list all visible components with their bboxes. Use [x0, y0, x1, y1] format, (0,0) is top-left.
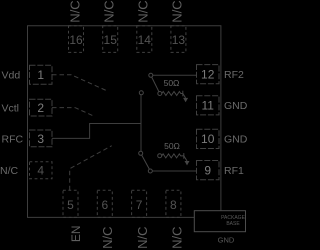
svg-text:GND: GND	[224, 134, 248, 146]
svg-text:N/C: N/C	[136, 0, 151, 22]
svg-text:N/C: N/C	[170, 0, 185, 22]
svg-text:RF2: RF2	[224, 69, 244, 81]
svg-text:11: 11	[201, 99, 214, 113]
svg-text:GND: GND	[218, 236, 235, 245]
svg-text:15: 15	[104, 33, 118, 47]
svg-text:RFC: RFC	[2, 133, 24, 145]
svg-text:7: 7	[136, 198, 143, 212]
svg-text:N/C: N/C	[102, 0, 117, 22]
svg-text:9: 9	[204, 164, 211, 178]
svg-text:4: 4	[37, 164, 44, 178]
svg-text:2: 2	[37, 101, 44, 115]
svg-text:BASE: BASE	[226, 221, 240, 227]
svg-text:Vctl: Vctl	[2, 102, 20, 114]
svg-text:GND: GND	[224, 100, 248, 112]
svg-text:RF1: RF1	[224, 165, 244, 177]
svg-text:50Ω: 50Ω	[164, 141, 180, 151]
svg-text:N/C: N/C	[0, 165, 19, 177]
svg-text:16: 16	[69, 33, 83, 47]
svg-text:N/C: N/C	[100, 227, 115, 249]
svg-text:13: 13	[172, 33, 186, 47]
svg-text:N/C: N/C	[135, 227, 150, 249]
svg-text:1: 1	[37, 68, 44, 82]
svg-text:N/C: N/C	[67, 0, 82, 22]
svg-text:3: 3	[37, 132, 44, 146]
svg-text:5: 5	[67, 198, 74, 212]
svg-text:14: 14	[138, 33, 152, 47]
svg-text:EN: EN	[69, 226, 83, 243]
svg-text:10: 10	[201, 132, 215, 146]
svg-text:8: 8	[170, 198, 177, 212]
svg-text:N/C: N/C	[169, 227, 184, 249]
svg-text:Vdd: Vdd	[2, 70, 21, 82]
svg-text:6: 6	[101, 198, 108, 212]
svg-text:12: 12	[201, 68, 215, 82]
svg-text:50Ω: 50Ω	[164, 78, 180, 88]
